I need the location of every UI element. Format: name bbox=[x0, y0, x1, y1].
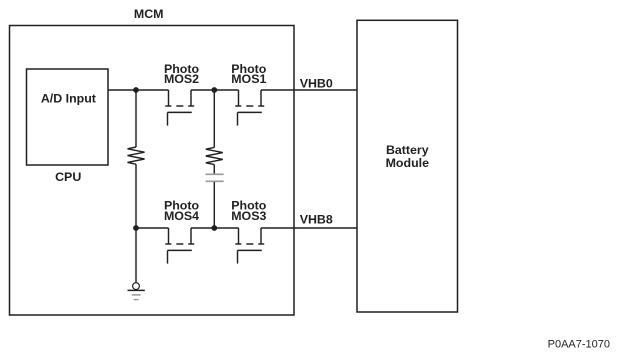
svg-text:Module: Module bbox=[386, 156, 429, 170]
MCM box bbox=[10, 26, 295, 316]
svg-text:CPU: CPU bbox=[55, 170, 81, 184]
resistor R1 (left) bbox=[128, 147, 145, 164]
svg-text:MOS1: MOS1 bbox=[231, 72, 266, 86]
svg-text:MOS2: MOS2 bbox=[164, 72, 199, 86]
svg-text:A/D Input: A/D Input bbox=[41, 92, 96, 106]
wire VHB8: Photo MOS3 to Battery Module bbox=[261, 227, 357, 229]
wire: resistor R2 to capacitor bbox=[213, 165, 215, 174]
transistor Photo MOS1 bbox=[235, 90, 264, 126]
wire: resistor R1 to bottom node and ground bbox=[135, 164, 137, 282]
svg-text:VHB8: VHB8 bbox=[300, 213, 333, 227]
svg-text:VHB0: VHB0 bbox=[300, 77, 333, 91]
node: junction dot bottom-middle bbox=[211, 225, 217, 231]
transistor Photo MOS3 bbox=[235, 228, 264, 264]
wire: node to Photo MOS4 (bottom row, y=228) bbox=[136, 227, 169, 229]
svg-text:P0AA7-1070: P0AA7-1070 bbox=[548, 339, 610, 351]
svg-text:MOS3: MOS3 bbox=[231, 209, 266, 223]
transistor Photo MOS4 bbox=[165, 228, 194, 264]
wire: capacitor to bottom node bbox=[213, 182, 215, 228]
ground bbox=[128, 283, 145, 300]
transistor Photo MOS2 bbox=[165, 90, 194, 126]
wire: Photo MOS4 to Photo MOS3 bbox=[191, 227, 239, 229]
CPU box bbox=[27, 69, 109, 165]
wire: left column vertical (node A down to ground) bbox=[135, 90, 137, 147]
svg-text:Battery: Battery bbox=[386, 143, 429, 157]
wire: A/D Input to Photo MOS2 (top row, y=90) bbox=[108, 89, 169, 91]
node: junction dot bottom-left bbox=[133, 225, 139, 231]
node: junction dot top-left bbox=[133, 87, 139, 93]
capacitor C1 bbox=[206, 173, 224, 175]
node: junction dot top-middle bbox=[211, 87, 217, 93]
Battery Module box bbox=[357, 20, 458, 312]
resistor R2 (middle) bbox=[206, 147, 223, 164]
svg-text:MCM: MCM bbox=[134, 7, 164, 21]
wire: middle column vertical (node B down to resistor) bbox=[213, 90, 215, 147]
wire: Photo MOS2 to Photo MOS1 bbox=[191, 89, 239, 91]
svg-text:MOS4: MOS4 bbox=[164, 209, 199, 223]
wire VHB0: Photo MOS1 to Battery Module bbox=[261, 89, 357, 91]
